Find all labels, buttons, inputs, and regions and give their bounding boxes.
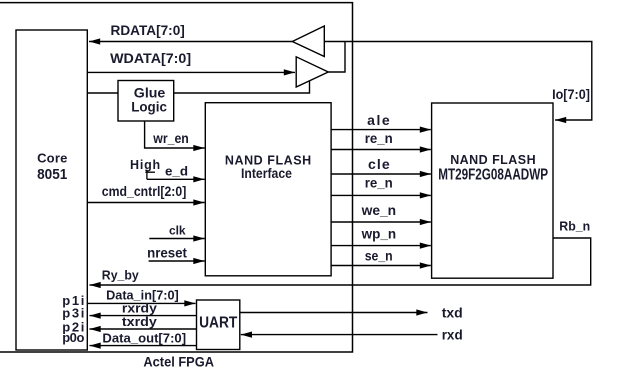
wire txrdy bbox=[90, 315, 197, 332]
svg-text:cle: cle bbox=[368, 156, 390, 172]
buffer read (tri-state, points left) bbox=[292, 26, 324, 57]
svg-text:Data_out[7:0]: Data_out[7:0] bbox=[102, 330, 186, 345]
wire clk bbox=[149, 224, 204, 242]
wire cmd_cntrl[2:0] bbox=[88, 183, 205, 206]
svg-text:Io[7:0]: Io[7:0] bbox=[552, 87, 590, 102]
wire ale bbox=[331, 112, 431, 133]
block NAND FLASH MT29F2G08AADWP bbox=[432, 103, 553, 278]
svg-text:WDATA[7:0]: WDATA[7:0] bbox=[110, 51, 191, 66]
wire Ry_by / Rb_n bbox=[90, 218, 591, 288]
wire se_n bbox=[331, 248, 431, 268]
wire Io[7:0] bus bbox=[324, 42, 592, 124]
svg-text:we_n: we_n bbox=[361, 203, 397, 218]
wire txd bbox=[240, 304, 463, 320]
svg-text:Rb_n: Rb_n bbox=[559, 218, 590, 233]
wire WDATA[7:0] bbox=[88, 51, 296, 75]
svg-text:Ry_by: Ry_by bbox=[102, 267, 140, 282]
outer box Actel FPGA bbox=[0, 3, 353, 352]
block Core 8051 bbox=[16, 30, 87, 350]
svg-text:txd: txd bbox=[442, 304, 463, 320]
wire wp_n bbox=[331, 227, 431, 249]
wire glue logic to write buffer enable bbox=[174, 81, 310, 93]
svg-text:Core: Core bbox=[37, 151, 67, 166]
svg-text:wr_en: wr_en bbox=[152, 131, 188, 146]
tie-high symbol bbox=[130, 158, 160, 180]
svg-text:clk: clk bbox=[169, 224, 186, 238]
wire write buffer output to Io bus bbox=[328, 42, 345, 73]
wire cle bbox=[331, 156, 431, 177]
svg-text:NAND FLASH: NAND FLASH bbox=[450, 153, 535, 167]
svg-text:Data_in[7:0]: Data_in[7:0] bbox=[106, 288, 179, 303]
svg-text:nreset: nreset bbox=[147, 245, 187, 260]
svg-text:se_n: se_n bbox=[365, 248, 393, 263]
svg-text:ale: ale bbox=[367, 112, 390, 128]
svg-text:rxrdy: rxrdy bbox=[122, 302, 157, 316]
block UART bbox=[197, 300, 240, 350]
wire wr_en bbox=[145, 121, 205, 151]
svg-text:MT29F2G08AADWP: MT29F2G08AADWP bbox=[438, 166, 548, 183]
svg-text:Interface: Interface bbox=[241, 165, 292, 181]
svg-text:Actel FPGA: Actel FPGA bbox=[143, 354, 214, 370]
wire rxd bbox=[241, 327, 463, 342]
svg-text:8051: 8051 bbox=[37, 166, 67, 183]
svg-text:UART: UART bbox=[199, 315, 237, 332]
svg-text:re_n: re_n bbox=[365, 175, 393, 190]
block Glue Logic bbox=[118, 81, 174, 122]
svg-text:cmd_cntrl[2:0]: cmd_cntrl[2:0] bbox=[102, 183, 187, 199]
wire core to glue logic bbox=[88, 92, 119, 94]
svg-text:wp_n: wp_n bbox=[361, 227, 396, 242]
svg-text:rxd: rxd bbox=[442, 327, 463, 342]
wire RDATA[7:0] bbox=[89, 23, 292, 44]
wire we_n bbox=[331, 203, 431, 225]
wire rxrdy bbox=[90, 302, 197, 319]
svg-text:e_d: e_d bbox=[165, 165, 188, 179]
wire Data_out[7:0] bbox=[90, 330, 197, 348]
svg-text:p0o: p0o bbox=[62, 330, 84, 345]
wire Data_in[7:0] bbox=[88, 288, 196, 307]
wire re_n (1) bbox=[331, 131, 431, 153]
wire re_n (2) bbox=[331, 175, 431, 198]
svg-text:Logic: Logic bbox=[131, 99, 167, 114]
svg-text:re_n: re_n bbox=[365, 131, 393, 146]
svg-text:RDATA[7:0]: RDATA[7:0] bbox=[111, 23, 185, 38]
svg-text:High: High bbox=[130, 158, 160, 172]
buffer write (tri-state, points right) bbox=[296, 57, 328, 87]
wire e_d bbox=[147, 165, 205, 183]
wire nreset bbox=[147, 245, 204, 264]
block NAND FLASH Interface bbox=[205, 103, 331, 276]
svg-text:txrdy: txrdy bbox=[122, 315, 157, 329]
